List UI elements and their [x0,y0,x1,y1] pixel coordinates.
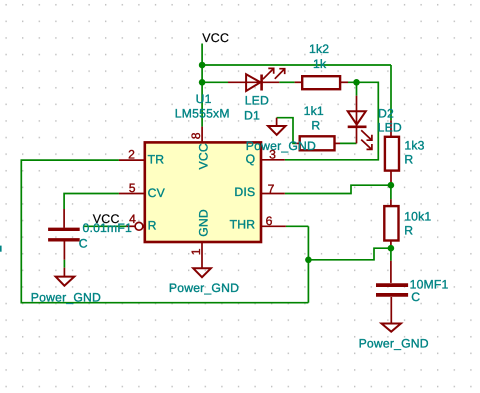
svg-text:3: 3 [269,147,276,161]
svg-text:R: R [311,119,320,133]
svg-text:1k1: 1k1 [304,104,324,118]
svg-text:Power_GND: Power_GND [169,281,239,295]
svg-text:D2: D2 [378,107,394,121]
wire LED D1 cathode to resistor 1k2 [279,81,294,83]
svg-text:LM555xM: LM555xM [175,107,230,121]
resistor 1k2 left pin [295,81,303,83]
capacitor 10MF1 plates [376,285,408,295]
pin 3 stub of U1 [261,159,285,161]
junction node J [305,257,312,264]
LED D2 [348,111,372,149]
junction node L below 1k3 [388,182,395,189]
IC U1 LM555xM timer body [145,142,261,242]
resistor 1k3 [385,137,399,171]
resistor 10k1 bottom pin [390,241,392,249]
ground Power_GND under pin 1 [193,268,211,277]
svg-text:1: 1 [189,248,203,255]
ground Power_GND left [56,277,75,286]
svg-text:4: 4 [129,212,136,226]
junction node VCC upper [199,62,206,69]
wire junction down to LED D2 anode [356,82,358,95]
pin 5 stub of U1 [119,193,145,195]
svg-text:C: C [411,290,420,304]
resistor 1k3 top pin [390,120,392,136]
wire VCC vertical from VCC flag down to U1 pin 8 [201,44,203,127]
ground stem near Q [276,118,278,126]
svg-text:R: R [404,224,413,238]
resistor 1k1 left pin [295,142,300,144]
svg-text:VCC: VCC [197,143,211,169]
pin 8 stub of U1 [201,127,203,143]
resistor 1k1 [300,136,335,150]
svg-text:THR: THR [230,218,256,232]
wire THR pin 6 horizontal [286,225,309,227]
wire CV pin 5 to capacitor 0.01mF1 [64,194,119,210]
pin 4 stub of U1 [126,225,135,227]
svg-text:Power_GND: Power_GND [31,290,101,304]
junction node after 1k2 [353,79,360,86]
svg-text:1k2: 1k2 [309,42,329,56]
svg-text:R: R [404,153,413,167]
wire resistor 1k1 right to LED D2 cathode [340,142,357,144]
svg-text:1k3: 1k3 [404,138,424,152]
svg-text:U1: U1 [196,92,212,106]
resistor 1k1 right pin [335,142,341,144]
svg-text:GND: GND [197,209,211,237]
ground Power_GND bottom right [382,324,401,332]
LED D1 through lead [228,81,279,83]
wire DIS pin 7 to node L [285,185,391,193]
wire node K down to capacitor 10MF1 [390,248,392,261]
ground Power_GND near Q [268,126,286,135]
svg-text:C: C [79,236,88,250]
svg-text:6: 6 [266,214,273,228]
svg-text:LED: LED [245,94,269,108]
svg-text:TR: TR [148,152,165,166]
capacitor 10MF1 bottom pin [390,297,392,324]
pin 2 stub of U1 [119,159,145,161]
junction node VCC lower [199,79,206,86]
resistor 10k1 top pin [390,199,392,206]
resistor 1k3 bottom pin [390,171,392,186]
ground stem left [63,268,65,277]
wire Power_GND to resistor 1k1 left [277,118,295,144]
svg-text:D1: D1 [244,109,260,123]
capacitor 10MF1 top pin [390,261,392,283]
junction node K [388,245,395,252]
svg-text:DIS: DIS [234,185,255,199]
pin 1 stub of U1 [201,242,203,268]
wire R pin 4 to VCC label [83,225,126,227]
svg-text:Q: Q [246,152,256,166]
wire right column down to R 1k3 top [390,65,392,120]
svg-text:7: 7 [268,182,275,196]
capacitor 0.01mF1 top pin [63,209,65,228]
resistor 10k1 [384,206,398,240]
capacitor 0.01mF1 plates [48,229,80,240]
svg-text:R: R [148,219,157,233]
resistor 1k2 right pin [340,81,348,83]
wire node L down to resistor 10k1 [390,185,392,199]
svg-text:Power_GND: Power_GND [359,336,429,350]
pin 7 stub of U1 [261,193,285,195]
resistor 1k2 [302,76,340,89]
LED D2 through lead [356,96,358,144]
svg-text:LED: LED [378,121,402,135]
wire TR pin 2 left rail and bottom rail [21,160,308,303]
wire node J staircase right to node K [308,248,391,260]
svg-text:10k1: 10k1 [404,209,431,223]
wire capacitor 0.01mF1 to ground [63,260,65,268]
svg-text:8: 8 [189,132,203,139]
svg-text:1k: 1k [313,57,327,71]
pin 6 stub of U1 [261,225,286,227]
svg-text:2: 2 [128,148,135,162]
wire top rail from VCC junction to right column [202,64,391,66]
wire VCC lower junction to LED D1 anode [202,81,228,83]
svg-text:VCC: VCC [202,31,229,45]
svg-text:CV: CV [148,186,166,200]
capacitor 0.01mF1 bottom pin [63,241,65,259]
svg-text:5: 5 [129,181,136,195]
wire resistor 1k2 right through junction, down to Q pin 3 [285,82,379,160]
wire THR column down through node J to bottom rail [307,226,309,302]
pin 4 inversion bubble [135,222,143,230]
LED D1 [246,68,285,91]
svg-text:Power_GND: Power_GND [246,139,316,153]
svg-text:0.01mF1: 0.01mF1 [83,221,133,235]
clipped label at left edge [0,246,2,252]
